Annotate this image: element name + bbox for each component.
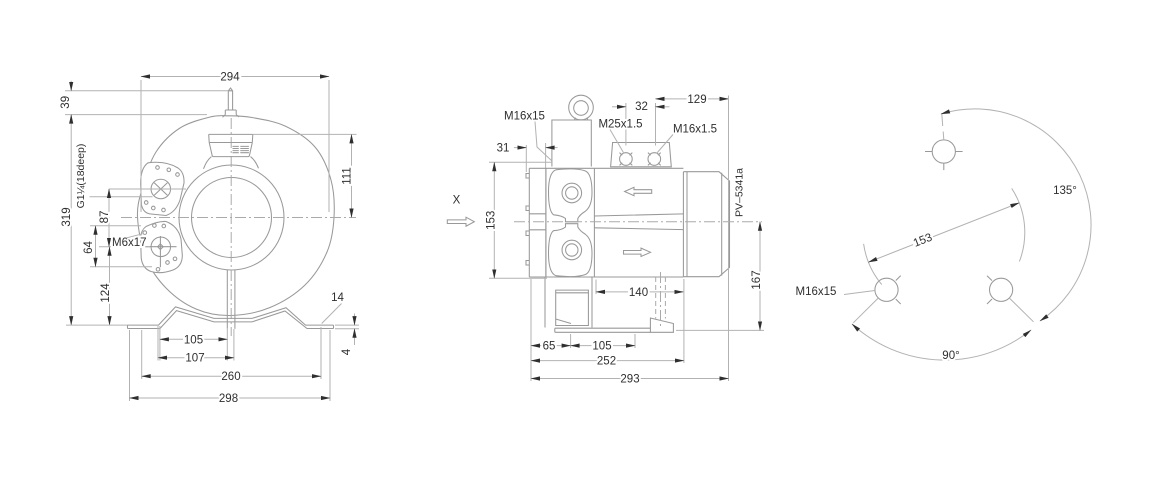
body top wire (529, 167, 683, 169)
dim 153 (489, 161, 552, 163)
svg-text:64: 64 (83, 241, 95, 254)
base strap bottom edge (128, 311, 334, 329)
lower port M6 circle (151, 237, 171, 256)
upper port flange plate (141, 162, 184, 215)
svg-text:M6x17: M6x17 (112, 237, 147, 249)
extension base left (66, 324, 128, 326)
silencer upper blob (549, 169, 593, 222)
dim 252 (683, 279, 685, 363)
casing split cone lines (594, 214, 683, 230)
dim 260 (141, 330, 143, 379)
M16 leader (657, 135, 674, 154)
bottom slot wire (226, 270, 228, 329)
dim 4 (335, 324, 359, 326)
dim 105 left (159, 326, 161, 361)
dim 87 (109, 188, 186, 190)
rear stud lines (656, 277, 666, 319)
svg-text:M16x15: M16x15 (796, 286, 837, 298)
svg-text:294: 294 (220, 72, 240, 84)
label 14 leader (322, 304, 342, 324)
base plate (555, 328, 651, 332)
foot box below silencer (545, 277, 592, 328)
base strap end caps (128, 325, 334, 328)
extension lines stem top (65, 90, 228, 92)
left flange plate edge (529, 168, 546, 277)
dim 129 (656, 98, 729, 100)
muffler hatch lines (233, 146, 249, 152)
BL radial extension (853, 298, 878, 323)
svg-text:4: 4 (341, 348, 353, 355)
lower port center dot (158, 244, 164, 250)
dim 153 diameter line (868, 203, 1019, 262)
dim 140 (595, 280, 597, 295)
svg-text:105: 105 (592, 341, 611, 353)
svg-text:X: X (453, 195, 461, 207)
rear stud centerline (660, 272, 662, 326)
center dashed line (514, 221, 762, 223)
base strap top edge (128, 307, 334, 325)
flange tabs (526, 174, 529, 266)
silencer lower blob (549, 224, 593, 277)
svg-text:135°: 135° (1053, 185, 1077, 197)
bolt hole BL ticks (896, 276, 901, 304)
rear wedge foot (650, 318, 673, 332)
cable gland M25 (620, 153, 633, 166)
dim 39 (70, 81, 72, 91)
svg-text:124: 124 (100, 283, 112, 303)
svg-text:M16x15: M16x15 (504, 111, 545, 123)
svg-text:105: 105 (184, 334, 203, 346)
svg-text:31: 31 (497, 143, 510, 155)
X open arrow (447, 217, 474, 226)
eyebolt ring (569, 95, 594, 120)
svg-text:260: 260 (221, 371, 240, 383)
dim 31 (525, 145, 527, 172)
RIGHT-VIEW (796, 109, 1092, 362)
foot pad (556, 290, 589, 325)
M25 leader (610, 130, 624, 154)
vertical centerline (230, 118, 232, 336)
muffler skirt (204, 157, 259, 169)
dim 65 (530, 279, 532, 381)
svg-text:65: 65 (543, 341, 556, 353)
upper port G1 circle (151, 179, 171, 199)
silencer upper circle (562, 183, 582, 203)
svg-text:32: 32 (635, 101, 648, 113)
svg-text:PV–5341a: PV–5341a (734, 168, 746, 217)
svg-text:39: 39 (60, 96, 72, 109)
dim 293 (728, 96, 730, 382)
pitch circle right segment (1012, 188, 1025, 261)
bolt hole top ticks (925, 152, 963, 171)
svg-text:M16x1.5: M16x1.5 (673, 124, 717, 136)
motor body (683, 172, 729, 277)
dim 107 (157, 326, 159, 361)
horizontal centerline (121, 217, 356, 219)
bolt hole top (932, 140, 955, 163)
svg-text:167: 167 (751, 270, 763, 289)
eyebolt neck (575, 118, 588, 121)
dim 32 (625, 103, 627, 146)
svg-text:129: 129 (687, 94, 706, 106)
body bottom wire (529, 276, 683, 278)
lower port flange plate (141, 221, 183, 272)
dim 105 mid (634, 334, 636, 348)
svg-text:G1¼(18deep): G1¼(18deep) (75, 144, 87, 209)
upper port cross (154, 183, 167, 196)
dim 124 (109, 247, 111, 325)
top stem valve (223, 88, 240, 117)
svg-text:153: 153 (486, 211, 498, 230)
muffler box (209, 134, 253, 156)
bolt hole BR ticks (987, 276, 992, 304)
flow arrow lower (right) (624, 248, 651, 256)
cable gland M16 (648, 153, 661, 166)
upper flange holes (156, 166, 160, 170)
dim 64 (90, 225, 141, 227)
silencer lower circle (562, 240, 582, 260)
svg-text:111: 111 (342, 167, 354, 184)
casing outer circle (137, 116, 334, 316)
dim 319 (70, 115, 72, 326)
discharge stem block (552, 120, 591, 167)
inlet bore circle (192, 178, 272, 258)
lower flange holes (143, 231, 147, 235)
svg-text:87: 87 (99, 211, 111, 224)
BR radial extension (1009, 298, 1033, 322)
silencer column edges (546, 168, 595, 277)
svg-text:14: 14 (331, 292, 344, 304)
svg-text:293: 293 (620, 374, 639, 386)
pitch circle left segment (864, 244, 882, 285)
MIDDLE-VIEW (447, 94, 764, 386)
dim 111 (253, 133, 357, 135)
bolt hole bottom-right (990, 278, 1013, 301)
bolt hole bottom-left (875, 278, 898, 301)
LEFT-VIEW (60, 72, 359, 406)
svg-text:319: 319 (61, 207, 73, 226)
dim 294 (141, 76, 329, 78)
arc 90 deg (852, 324, 1031, 360)
svg-text:298: 298 (219, 393, 238, 405)
flow arrow upper (left) (625, 187, 652, 195)
M16x15 leader right (844, 291, 875, 295)
svg-text:90°: 90° (942, 350, 959, 362)
junction box (611, 143, 672, 167)
svg-text:107: 107 (185, 353, 204, 365)
dim 167 (676, 329, 764, 331)
inlet ring circle (179, 165, 284, 270)
M16x15 leader (535, 122, 552, 161)
svg-text:252: 252 (597, 356, 616, 368)
arc 135 deg (941, 109, 1091, 321)
svg-text:140: 140 (629, 287, 648, 299)
bolt hole top extension (942, 132, 945, 140)
dim 298 (129, 330, 131, 401)
svg-text:M25x1.5: M25x1.5 (598, 119, 642, 131)
